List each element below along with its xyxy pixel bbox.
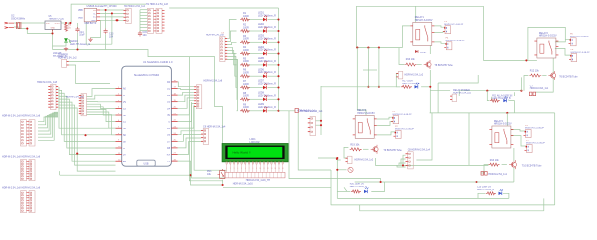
svg-text:HDR-M-COA_1x1: HDR-M-COA_1x1 — [530, 87, 549, 90]
wire MCU bottom bus — [60, 174, 191, 176]
label P10 — [355, 159, 374, 162]
svg-text:D6: D6 — [167, 135, 171, 137]
wire — [363, 69, 377, 71]
wire header pin to LED row 8 — [227, 59, 237, 99]
svg-text:TX: TX — [167, 161, 170, 163]
svg-text:HDR-M-2.54_1x8: HDR-M-2.54_1x8 — [2, 156, 21, 159]
wire H7 pin 4 to MCU — [87, 104, 116, 108]
header RELAY POWER — [450, 94, 457, 102]
svg-text:R19 10k: R19 10k — [350, 143, 360, 146]
crystal Y1 — [17, 22, 21, 29]
wire T9 collector — [375, 138, 377, 140]
svg-text:10k: 10k — [207, 173, 212, 176]
wire R16 to T8 base — [417, 64, 422, 66]
junction LED bus — [277, 64, 279, 66]
LED LED12 — [503, 97, 507, 103]
wire relay4 NO — [511, 130, 526, 132]
label RV1 — [207, 170, 212, 176]
transistor T9 — [371, 145, 378, 154]
connector P1 — [391, 116, 399, 124]
resistor R27 — [240, 86, 250, 89]
wire relay3 NO — [377, 117, 393, 119]
svg-text:R17 100R: R17 100R — [402, 81, 413, 83]
wire — [65, 22, 67, 25]
svg-text:15: 15 — [278, 168, 280, 170]
junction vout — [65, 22, 67, 24]
svg-text:D0: D0 — [167, 82, 171, 84]
label LED2 — [258, 23, 276, 29]
capacitor C13 — [104, 29, 108, 35]
wire row9 to pin — [279, 110, 296, 112]
svg-text:P5: P5 — [525, 125, 528, 127]
wire bottom bus 1 — [331, 204, 555, 206]
junction — [378, 47, 380, 49]
svg-text:R12 10k: R12 10k — [530, 70, 540, 73]
label C10 — [488, 173, 507, 176]
header H4 — [194, 85, 202, 109]
wire H7 pin 8 to MCU — [87, 115, 116, 135]
label U5 — [49, 16, 65, 21]
resistor R12 — [529, 74, 541, 77]
svg-text:4: 4 — [237, 168, 238, 170]
wire MCU to C9 pin 1 — [178, 131, 202, 135]
wire pot bottom — [222, 180, 224, 185]
wire vout riser — [71, 4, 146, 23]
junction — [486, 90, 488, 92]
LED LED13 — [364, 187, 368, 193]
wire relay2 NO — [555, 39, 571, 42]
wire cap C14 top — [77, 23, 79, 28]
label row9 pin — [297, 110, 316, 113]
wire header pin to LED row 3 — [227, 42, 236, 44]
wire MCU to pot — [178, 161, 223, 185]
resistor R21 — [240, 18, 250, 21]
label H3 — [37, 81, 58, 84]
wire relay1 coil return — [402, 26, 410, 48]
wire MCU to C9 pin 4 — [178, 142, 202, 155]
wire ladderA pin 2 — [38, 116, 58, 125]
wire R-LED row 9 — [248, 110, 264, 112]
label P8b — [571, 52, 591, 54]
svg-text:NodeMCU-CH340: NodeMCU-CH340 — [134, 73, 159, 77]
wire regulator VOUT — [61, 22, 71, 24]
wire usb branch 2 — [111, 13, 113, 44]
wire R-LED row 5 — [248, 64, 264, 66]
svg-text:C9 HDR-M-2.54_1x4: C9 HDR-M-2.54_1x4 — [203, 125, 226, 128]
svg-text:MJZDOVC-5.08-2P: MJZDOVC-5.08-2P — [446, 40, 466, 42]
wire LED row 9 in — [227, 59, 237, 110]
wire LED-bus row 8 — [268, 98, 279, 100]
label JB — [2, 156, 21, 159]
wire T6 emitter — [536, 78, 554, 92]
svg-text:16: 16 — [282, 168, 284, 170]
junction — [76, 153, 78, 155]
LED LED7 — [263, 83, 267, 89]
capacitor C15 — [138, 31, 142, 37]
wire — [437, 83, 439, 113]
svg-text:HDR-M-C34_1x8: HDR-M-C34_1x8 — [206, 34, 224, 36]
label C8 — [408, 149, 431, 152]
header C9 — [201, 129, 209, 145]
svg-text:1k: 1k — [68, 26, 71, 29]
label R20 — [350, 184, 367, 189]
label LED1 — [258, 12, 276, 18]
wire osc gnd — [14, 27, 53, 33]
svg-text:104: 104 — [143, 34, 148, 37]
label relay K3 — [357, 109, 375, 115]
svg-text:P7: P7 — [526, 140, 529, 142]
header JC — [21, 191, 36, 213]
potentiometer RV1 — [218, 169, 225, 179]
wire relay4 top feed — [506, 113, 508, 126]
label LED6 — [258, 68, 276, 74]
wire — [524, 76, 528, 91]
wire header pin to LED row 6 — [227, 53, 236, 76]
svg-text:C3: C3 — [221, 33, 225, 35]
wire relay1 NO — [434, 26, 445, 27]
label P8a — [571, 49, 574, 51]
wire — [140, 23, 148, 25]
wire — [367, 48, 369, 87]
label LED7 — [258, 80, 276, 86]
wire — [140, 9, 148, 11]
wire T9 emitter — [376, 158, 382, 165]
header C8 — [406, 152, 414, 169]
LED LED5 — [263, 61, 267, 67]
svg-text:P4: P4 — [446, 37, 449, 39]
svg-text:C7: C7 — [530, 86, 534, 88]
label P6b — [570, 36, 590, 38]
wire — [318, 157, 337, 159]
wire — [478, 193, 485, 198]
svg-text:100R: 100R — [243, 15, 249, 18]
svg-text:LED-TH-3mm_R: LED-TH-3mm_R — [258, 60, 276, 63]
svg-text:SC: SC — [123, 128, 127, 130]
label USB — [87, 5, 118, 8]
wire MCU to H4 pin 3 — [178, 92, 195, 95]
label H1 — [146, 3, 168, 6]
svg-text:HRS1H-S-DC5V: HRS1H-S-DC5V — [357, 112, 375, 115]
svg-text:LED-TH-3mm_R: LED-TH-3mm_R — [258, 49, 276, 52]
svg-text:HDR-M-2.54_1x8: HDR-M-2.54_1x8 — [2, 115, 21, 118]
svg-text:G: G — [123, 95, 125, 97]
label JC — [2, 187, 21, 190]
svg-text:HDR-M-2.54_1x16: HDR-M-2.54_1x16 — [233, 182, 254, 185]
header C7 — [529, 92, 535, 96]
LED LED9 — [263, 107, 267, 113]
label LED4 — [258, 46, 276, 52]
LED LED8 — [263, 95, 267, 101]
svg-text:GND: GND — [51, 27, 56, 29]
svg-text:LED-TH-3mm_R: LED-TH-3mm_R — [258, 26, 276, 29]
pin row9 — [295, 109, 299, 113]
label P1b — [393, 114, 413, 116]
wire — [140, 21, 148, 23]
wire MCU to H4 pin 7 — [178, 104, 195, 122]
junction LED bus — [277, 18, 279, 20]
header JA — [21, 120, 36, 146]
svg-text:104: 104 — [109, 35, 114, 38]
junction — [506, 112, 508, 114]
wire LED-bus row 1 — [268, 19, 279, 21]
header C10 — [481, 172, 487, 176]
wire H3 pin 2 to MCU — [59, 90, 116, 134]
wire relay2 loop — [528, 27, 565, 60]
header H7 — [79, 94, 87, 116]
wire LED-bus row 9 — [268, 110, 279, 112]
wire — [316, 124, 322, 126]
junction — [336, 157, 338, 159]
svg-text:D5: D5 — [167, 128, 171, 130]
label P4a — [446, 37, 449, 39]
wire H7 pin 5 to MCU — [87, 107, 116, 115]
wire R13 to T10 — [502, 164, 507, 166]
wire LED-bus row 7 — [268, 87, 279, 89]
svg-text:HRS1H-S-DC5V: HRS1H-S-DC5V — [415, 19, 433, 22]
svg-text:HDR-M-2.54_1x2: HDR-M-2.54_1x2 — [405, 73, 424, 76]
svg-text:D-: D- — [94, 13, 97, 15]
regulator U5 — [45, 21, 61, 32]
svg-text:C8 HDR-M-2.54_1x4: C8 HDR-M-2.54_1x4 — [408, 149, 431, 152]
USB connector J1 — [84, 8, 100, 22]
junction — [367, 86, 369, 88]
svg-text:LED-TH-3mm_B: LED-TH-3mm_B — [477, 189, 494, 191]
header H5 — [308, 117, 316, 136]
svg-text:HDR-M-COA_1x8: HDR-M-COA_1x8 — [37, 81, 58, 84]
svg-text:H1 HDR-F-2.54_1x8: H1 HDR-F-2.54_1x8 — [146, 3, 168, 6]
svg-text:10: 10 — [259, 168, 261, 170]
svg-text:100R: 100R — [243, 83, 249, 86]
wire ladderA pin 5 — [38, 114, 58, 134]
wire H7 pin 7 to MCU — [87, 112, 116, 128]
wire relay4 COM — [511, 136, 527, 146]
wire H7 pin 2 to MCU — [87, 95, 116, 99]
svg-text:HDR-M-2.54_1x8: HDR-M-2.54_1x8 — [22, 115, 41, 118]
wire to relay2 area — [484, 6, 527, 60]
svg-text:MJZDOVC-5.08-2P: MJZDOVC-5.08-2P — [395, 129, 415, 131]
junction — [189, 174, 191, 176]
wire USB pin 2 — [100, 12, 124, 14]
resistor R25 — [240, 63, 250, 66]
svg-text:U5: U5 — [49, 16, 53, 18]
svg-text:S3: S3 — [123, 108, 127, 110]
label R26 — [243, 69, 249, 75]
header H6 — [220, 37, 227, 62]
connector P4 — [444, 42, 452, 50]
junction regulator gnd — [51, 32, 53, 34]
label C14 — [79, 31, 85, 37]
label T8 — [434, 64, 453, 67]
svg-text:D3: D3 — [167, 102, 171, 104]
svg-text:S0: S0 — [123, 135, 127, 137]
wire relay power bus — [459, 91, 522, 96]
junction — [26, 28, 28, 30]
wire y86 bus — [321, 86, 400, 88]
resistor R29 — [240, 109, 250, 112]
wire H7 pin 6 to MCU — [87, 109, 116, 121]
wire usb branch 3 — [91, 20, 101, 37]
svg-text:R13 10k: R13 10k — [490, 159, 500, 162]
connector P8 — [569, 54, 577, 62]
wire header pin to LED row 5 — [227, 51, 236, 65]
junction — [320, 124, 322, 126]
svg-text:100R: 100R — [243, 26, 249, 29]
svg-text:HDR-M-2.54_1x8: HDR-M-2.54_1x8 — [22, 187, 41, 190]
junction — [116, 19, 118, 21]
label R11 — [492, 95, 512, 101]
transistor T10 — [509, 160, 516, 169]
wire y47.6 bus — [356, 47, 402, 49]
wire bus to LCD 1 — [189, 57, 223, 181]
svg-text:USB-B-Female/TH_CH340: USB-B-Female/TH_CH340 — [87, 5, 118, 8]
svg-text:C10 100R 1N: C10 100R 1N — [477, 187, 491, 189]
junction — [378, 86, 380, 88]
wire jumper 1 — [69, 61, 100, 63]
wire relay3 NC — [377, 132, 396, 135]
label H7 — [66, 97, 85, 99]
wire header pin to LED row 1 — [227, 20, 236, 39]
svg-text:3V: 3V — [123, 155, 126, 157]
wire top bus right — [356, 5, 483, 7]
wire — [140, 26, 148, 28]
svg-text:R16 10k: R16 10k — [406, 58, 416, 61]
wire ladderA pin 3 — [38, 115, 58, 128]
connector P5 — [524, 130, 532, 138]
wire H3 pin 5 to MCU — [59, 99, 116, 154]
wire — [468, 113, 470, 165]
wire regulator GND down — [52, 30, 54, 50]
wire H3 pin 6 to MCU — [59, 102, 116, 161]
junction — [84, 134, 86, 136]
wire y182 bus — [355, 181, 477, 183]
wire MCU to H4 pin 1 — [178, 82, 195, 87]
wire gnd bus right — [53, 50, 223, 149]
wire — [336, 158, 338, 198]
resistor R20 — [351, 190, 361, 193]
svg-text:SK: SK — [123, 141, 127, 143]
label R14 — [477, 187, 494, 192]
wire bus to LCD 3 — [194, 105, 227, 170]
connector P6 — [569, 38, 577, 46]
wire — [543, 198, 545, 210]
LED LED4 — [263, 50, 267, 56]
wire bottom bus 3 — [360, 205, 544, 211]
label R16 — [406, 58, 416, 61]
svg-text:S2: S2 — [123, 115, 127, 117]
wire y165 bus — [381, 164, 488, 166]
junction — [380, 181, 382, 183]
wire — [337, 169, 346, 171]
wire R-LED row 6 — [248, 75, 264, 77]
wire R19 to T9 — [363, 148, 369, 150]
label P2b — [395, 129, 415, 131]
wire relay2 COM — [555, 48, 571, 55]
svg-text:H5 HDR-M-2.54_1x4: H5 HDR-M-2.54_1x4 — [300, 110, 323, 113]
wire relay1 COM — [434, 31, 445, 34]
svg-text:R11 ALLA-100R 1N: R11 ALLA-100R 1N — [492, 95, 512, 98]
label P3a — [444, 21, 447, 23]
wire — [344, 187, 347, 191]
wire MCU to C9 pin 3 — [178, 138, 202, 148]
svg-text:HDR-M-2.54_1x8: HDR-M-2.54_1x8 — [66, 97, 85, 99]
wire MCU to H4 pin 5 — [178, 98, 195, 108]
label LED11 — [402, 81, 419, 86]
svg-text:MJZDOVC-5.08-2P: MJZDOVC-5.08-2P — [526, 143, 546, 145]
LED LED3 — [263, 38, 267, 44]
wire bus to LCD 2 — [192, 102, 225, 178]
svg-text:HDR-M-2.54_1x8: HDR-M-2.54_1x8 — [22, 156, 41, 159]
svg-text:TH-Green_G: TH-Green_G — [53, 55, 67, 58]
wire MCU to C9 pin 2 — [178, 134, 202, 141]
label J2 — [58, 54, 77, 60]
MCU left pins — [116, 87, 127, 163]
label JC2 — [22, 187, 41, 190]
svg-text:Hello World !!: Hello World !! — [233, 151, 251, 155]
ground — [64, 47, 68, 51]
svg-text:D+: D+ — [93, 17, 97, 19]
svg-text:D4: D4 — [167, 108, 171, 110]
label P4b — [446, 40, 466, 42]
junction — [525, 59, 527, 61]
junction LED bus — [277, 30, 279, 32]
svg-text:HDR-M-2.54_1x1: HDR-M-2.54_1x1 — [488, 173, 507, 176]
label C7 — [530, 86, 549, 91]
label R19 — [350, 143, 360, 146]
svg-text:100R: 100R — [243, 49, 249, 52]
label LED8 — [258, 92, 276, 98]
svg-text:T10 BC547B Tube: T10 BC547B Tube — [522, 164, 542, 167]
svg-text:P2: P2 — [395, 126, 398, 128]
svg-text:7: 7 — [249, 168, 250, 170]
wire — [399, 163, 406, 165]
junction — [320, 120, 322, 122]
svg-text:LED-TH-3mm_B: LED-TH-3mm_B — [350, 186, 367, 188]
wire to R16 — [399, 48, 405, 65]
header H3 — [48, 85, 58, 110]
junction vout 2 — [69, 22, 71, 24]
wire relay3 top feed — [357, 48, 366, 116]
label LED10 — [70, 40, 90, 46]
label P7a — [526, 140, 529, 142]
svg-text:G: G — [168, 122, 170, 124]
label R12 — [530, 70, 540, 73]
svg-text:3V: 3V — [167, 115, 170, 117]
wire LED-bus row 6 — [268, 75, 279, 77]
label C13 — [109, 33, 114, 39]
connector P2 — [394, 130, 402, 138]
wire — [403, 155, 406, 165]
wire H3 pin 3 to MCU — [59, 93, 116, 141]
svg-text:U1 NodeMCU-CH340 1.0: U1 NodeMCU-CH340 1.0 — [143, 60, 173, 64]
LED LED6 — [263, 72, 267, 78]
wire — [59, 171, 61, 175]
svg-text:MJZDOVC-4.08-2P: MJZDOVC-4.08-2P — [444, 24, 464, 26]
wire — [503, 193, 509, 198]
wire jumper 2 — [69, 65, 110, 84]
connector P3 — [443, 26, 451, 34]
wire H3 pin 7 to MCU — [59, 105, 116, 165]
relay K4 — [489, 126, 513, 148]
label LCD header2 — [233, 182, 254, 185]
label relay K1 — [415, 16, 433, 22]
wire ladderA pin 7 — [38, 112, 58, 140]
svg-text:100R: 100R — [243, 38, 249, 41]
wire cap C14 gnd — [77, 33, 79, 50]
buzzer SP1 — [348, 167, 353, 172]
wire MCU to H4 pin 2 — [178, 89, 195, 90]
wire LCD gnd bus — [223, 186, 331, 188]
label P2a — [395, 126, 398, 128]
